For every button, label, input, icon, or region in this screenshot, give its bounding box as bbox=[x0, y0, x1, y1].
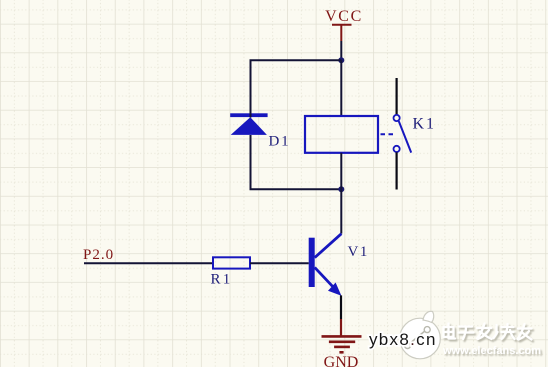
wire relay coil bottom pin bbox=[340, 153, 342, 190]
power port VCC bbox=[325, 8, 363, 41]
svg-text:VCC: VCC bbox=[325, 8, 363, 25]
watermark elecfans chinese bbox=[444, 324, 532, 340]
relay linkage dashed line bbox=[381, 133, 394, 135]
svg-text:D1: D1 bbox=[269, 134, 291, 150]
svg-text:ybx8.cn: ybx8.cn bbox=[369, 330, 437, 349]
ground GND bbox=[322, 319, 362, 352]
wire emitter to ground bbox=[340, 295, 342, 319]
svg-text:V1: V1 bbox=[348, 244, 370, 260]
svg-text:GND: GND bbox=[324, 354, 359, 367]
node top junction bbox=[338, 57, 344, 63]
wire diode to bottom junction bbox=[251, 135, 342, 189]
svg-text:P2.0: P2.0 bbox=[83, 247, 114, 263]
svg-text:R1: R1 bbox=[211, 271, 233, 287]
transistor V1 bbox=[309, 234, 342, 296]
diode D1 bbox=[230, 113, 267, 135]
wire contact bottom bbox=[396, 152, 398, 189]
wire junction to relay coil top pin bbox=[340, 60, 342, 116]
wire base left segment bbox=[84, 262, 213, 264]
wire crossing diode bar bbox=[250, 113, 252, 117]
relay contact K1 switch bbox=[394, 115, 412, 153]
relay coil K1 bbox=[305, 116, 378, 153]
wire junction to transistor collector bbox=[340, 189, 342, 233]
watermark ybx8 logo blob bbox=[400, 311, 441, 358]
node bottom junction bbox=[338, 186, 344, 192]
svg-text:www.elecfans.com: www.elecfans.com bbox=[442, 345, 541, 357]
resistor R1 bbox=[213, 257, 250, 268]
watermark text ybx8.cn bbox=[369, 330, 437, 349]
wire contact top bbox=[396, 78, 398, 115]
wire base right segment bbox=[250, 262, 309, 264]
wire top horizontal to diode branch bbox=[251, 60, 342, 117]
svg-text:K1: K1 bbox=[413, 116, 437, 133]
wire VCC to top junction bbox=[340, 41, 342, 60]
